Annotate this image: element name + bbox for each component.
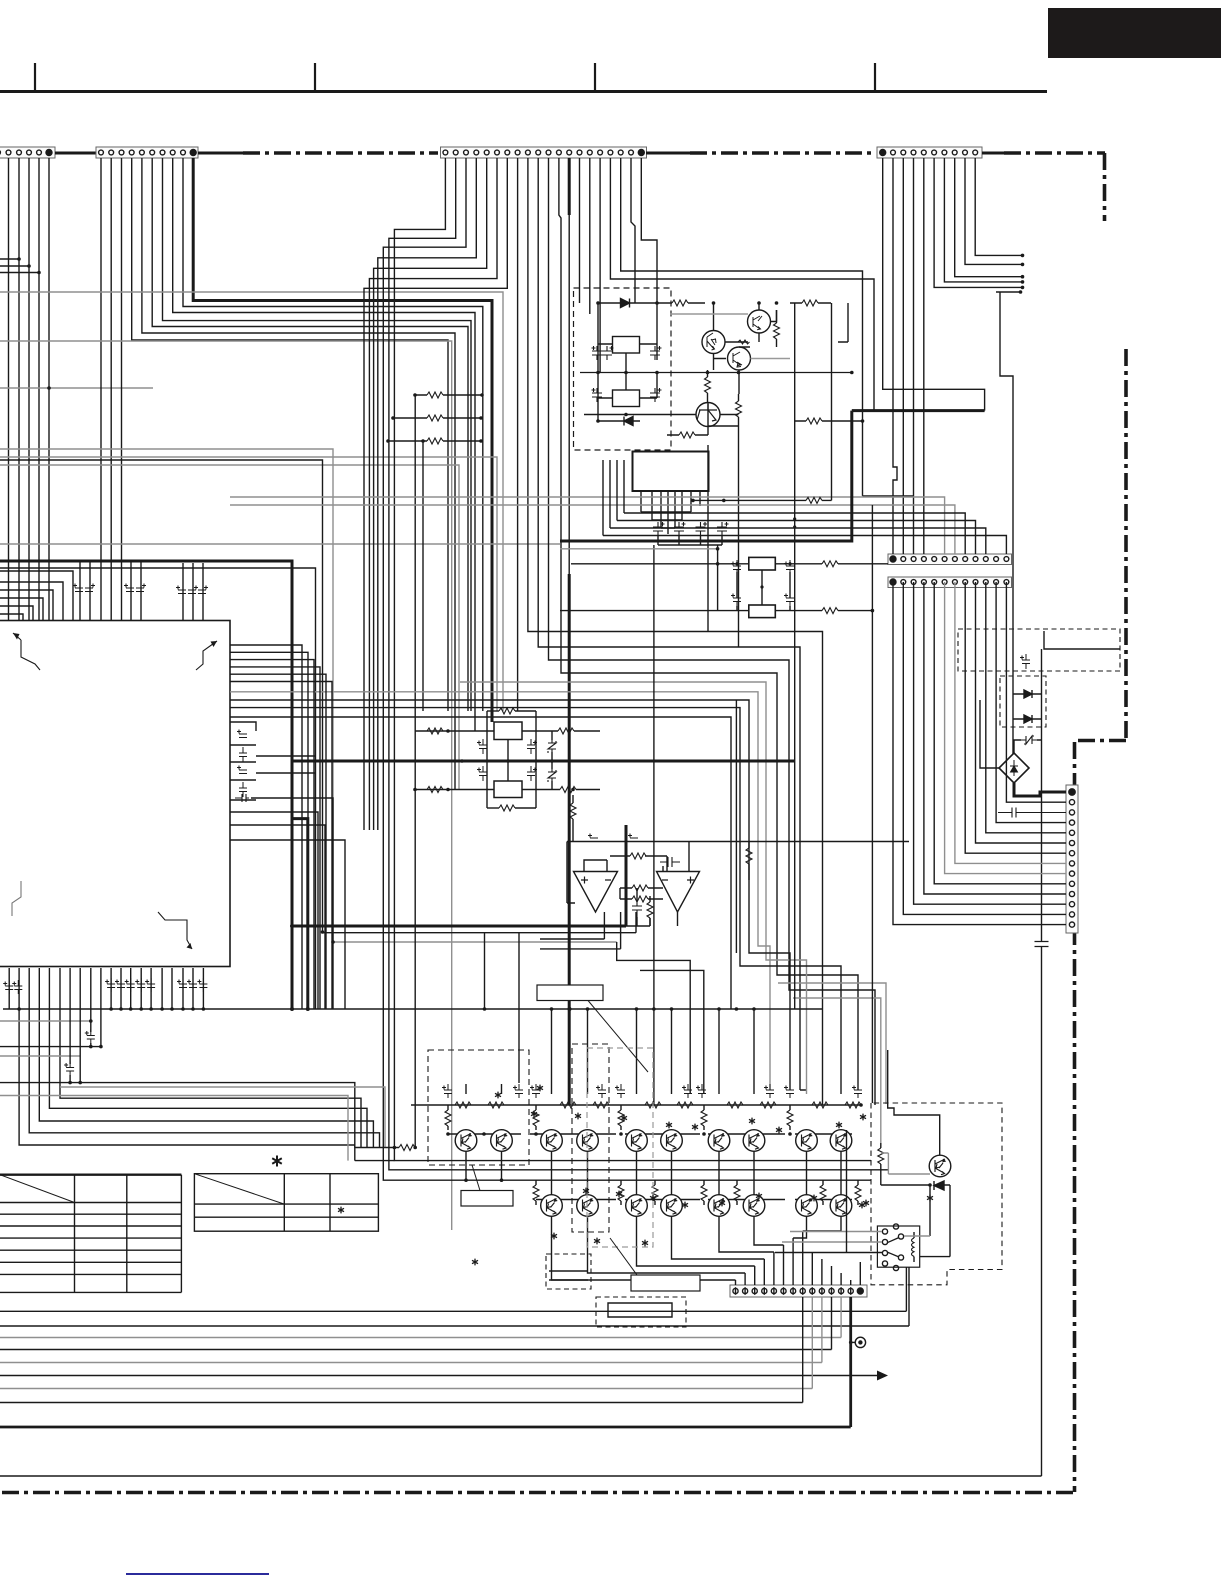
resistor rail y441 (388, 441, 481, 711)
thin bottom rail (0, 1475, 1042, 1477)
thick riser + bottom rail (0, 1297, 851, 1427)
capacitor C-x1 (1020, 654, 1030, 669)
resistor R-m2 (bottom) (487, 807, 499, 809)
wire C pin4 (378, 158, 477, 830)
IC U2 pins (641, 491, 700, 534)
wire C pin6 (369, 158, 497, 830)
resistor R-o2 vertical (748, 842, 750, 849)
wire feedback U3A (567, 842, 607, 904)
filter block F3 (749, 557, 776, 570)
resistor row on rail (455, 1102, 471, 1108)
wire bus y460 (0, 460, 636, 933)
wire C pin2 (389, 158, 889, 1170)
rail y421 right (838, 420, 863, 422)
resistor rail y418 (393, 417, 481, 419)
capacitor C-b (602, 346, 614, 360)
wire C pin18 (621, 158, 914, 496)
wire Q-r top (888, 1050, 940, 1156)
wire bottom pins row (9, 968, 203, 1009)
bus 6 (arrow) (0, 1375, 878, 1377)
capacitor row on pins (3, 980, 13, 994)
tick mark 2 (314, 63, 316, 91)
rail y563.8 (571, 563, 888, 565)
capacitor C-bl1 (90, 1009, 92, 1032)
long rail y1009 (3, 1008, 823, 1010)
capacitor C-r3 (237, 766, 247, 774)
tick mark 1 (34, 63, 36, 91)
diode D-x1 (1013, 693, 1042, 695)
connector CN-G (bottom) (730, 1285, 867, 1297)
capacitor C-i (717, 522, 729, 536)
resistor R-h between Q1 Q3 (738, 340, 750, 344)
CN-G pin drops (736, 1231, 861, 1285)
wire CN-B pins 1-3 (101, 158, 122, 620)
connector CN-E row1 (middle right) (888, 554, 1012, 565)
wire U3B output (677, 912, 679, 926)
wire C pin13 (bold stub) (568, 158, 571, 215)
capacitor C-r2 (239, 747, 247, 762)
wire left rail (598, 303, 657, 421)
blue footer line (126, 1573, 269, 1575)
wire CN-B pin8 (173, 158, 475, 731)
border segment top between connectors (243, 151, 438, 155)
wire CN-B pin7 (163, 158, 472, 711)
resistor R-r1 vertical (880, 1143, 882, 1148)
wire CN-B pin5 (142, 158, 455, 790)
base rail y1105 (411, 1104, 861, 1106)
bold rail y410.6 (852, 409, 985, 412)
capacitor C-o3 (horizontal) (660, 857, 680, 867)
wire IC top stubs with caps (80, 560, 203, 620)
bold wire bridge out (1014, 783, 1066, 796)
wire DB1 inner (1044, 631, 1120, 649)
wire lefts (0, 1020, 91, 1022)
wire D pin9 + NC dot (965, 158, 1022, 264)
tick mark 4 (874, 63, 876, 91)
vertical resistors below rail (445, 1105, 793, 1130)
filter block F2 (494, 781, 522, 798)
label box L3 (631, 1275, 700, 1291)
wire F1-F2 (507, 740, 509, 782)
capacitor C-m3 (477, 766, 487, 781)
wire left-edge L group into IC top (0, 571, 73, 620)
wire CN-B pin4 (132, 158, 448, 711)
connector CN-C (441, 147, 647, 158)
resistor R-m7 vertical (572, 795, 574, 803)
wire x1013 vertical (1012, 679, 1014, 754)
wire feed y682 (grey) (460, 682, 807, 1094)
vertical resistors row2 (533, 1180, 861, 1205)
diode D-r1 (881, 1184, 930, 1186)
rail y731 (415, 730, 552, 732)
column risers to rail (719, 1009, 754, 1094)
wire C pin9 (528, 158, 823, 1105)
extra band lines (60, 1087, 385, 1148)
resistor R-c (vertical) (774, 323, 780, 339)
dashed box DBA3 (tall grey) (587, 1048, 653, 1247)
wire coil link grey (904, 1235, 930, 1237)
capacitor C-o2 (628, 834, 638, 842)
bold rail y761 (292, 760, 795, 763)
wire D pin4 (913, 158, 915, 554)
capacitor group IC-top a (73, 584, 83, 592)
wire link C-border (646, 152, 690, 155)
wire D pin8 + NC dot (955, 158, 1022, 277)
wire C pin20 (641, 158, 657, 303)
wire diode junctions down (930, 1185, 950, 1257)
relay K2 (613, 390, 640, 407)
star marker big (272, 1156, 282, 1167)
row2 base link rail (536, 1199, 852, 1201)
grey feed y983 (778, 983, 886, 1104)
wires into CN-F from staircase (893, 582, 1066, 925)
rail y610.6 (560, 610, 872, 612)
bus 1 (0, 1310, 906, 1312)
bold output rail (292, 925, 626, 928)
IC1 right caps cluster (230, 722, 256, 800)
wire C pin10 (538, 158, 806, 1090)
wire C pin1 (394, 158, 871, 1161)
corner mark TR (196, 641, 217, 670)
wire D pin7 + NC dot (944, 158, 1022, 282)
wire IC2 drop x653.9 (653, 545, 655, 1105)
dashed box DBA1 (left pair) (428, 1050, 529, 1165)
capacitor C-a (592, 346, 603, 360)
feed staircase into columns (617, 942, 691, 1094)
wires Q-network (713, 303, 759, 394)
capacitor C-f (653, 522, 665, 536)
wire C pin19 (631, 158, 635, 303)
wire Q-r emitter grey (881, 1153, 930, 1174)
bus 3 (grey) (0, 1297, 841, 1338)
wire IC1 right pin rows to bundle (230, 645, 320, 1009)
wire relay bottom drops (906, 1267, 909, 1326)
wire C pin15 (589, 158, 591, 314)
resistor R-b (802, 300, 818, 306)
wire CN-B pin9 (183, 158, 483, 711)
wire link A-B (55, 152, 96, 155)
border right mid (1124, 349, 1128, 742)
resistor rail y395 (415, 395, 482, 1148)
grey bus y457 (0, 457, 497, 711)
capacitor C-m2 (527, 739, 537, 754)
wire IC2 pin lines down (658, 535, 722, 545)
wire bus y449 (0, 449, 617, 942)
grey bus y544 (long) (0, 543, 560, 545)
table T1 (0, 1175, 181, 1293)
diode D1 (598, 302, 657, 304)
resistor R-a (672, 300, 688, 306)
wire Q3 right grey (751, 358, 791, 360)
label box L1 (537, 985, 603, 1001)
collector stub to resistor rail (355, 1148, 395, 1161)
resistor R-m4 (558, 728, 574, 734)
dashed box DB2 (1000, 676, 1046, 727)
wire bus y568 (0, 568, 316, 1009)
bridge rectifier BR1 (999, 753, 1029, 783)
wire long vertical x872 (871, 505, 873, 1103)
transistor Q4 (696, 403, 720, 427)
resistor R-o1 (610, 856, 667, 872)
relay K1 (613, 337, 640, 354)
filter block F4 (749, 605, 776, 618)
resistor R-m5 (427, 787, 443, 793)
wire Q4 row (584, 402, 739, 435)
wire C pin12 (559, 158, 858, 1090)
wire right stubs (256, 756, 316, 773)
grey rail y548.8 (560, 548, 718, 550)
diode D2 (598, 420, 640, 422)
resistor R-e (vertical) (736, 401, 742, 417)
resistor R-o5 vertical (647, 902, 653, 918)
wire left-edge stubs (0, 259, 39, 273)
column drops row1-row2 (552, 1152, 842, 1195)
capacitor group IC-top b (124, 584, 134, 592)
wire NC stub x1000 (996, 292, 1020, 679)
bus 2 (0, 1325, 909, 1327)
bold elbow x851.8 (560, 411, 852, 541)
op-amp U3B (657, 872, 700, 913)
resistor R-f (679, 432, 695, 438)
wire net (620, 888, 663, 926)
wire C pin7 (364, 158, 507, 830)
bus 5 (grey) (0, 1297, 822, 1363)
wire op-amp out staircase (540, 912, 621, 949)
bottom rail subckt (580, 372, 852, 374)
wire C pin8 (517, 158, 519, 711)
wire CN-B pin10 (bold route) (193, 158, 492, 722)
wire K1-K2 (598, 344, 657, 398)
wire D pin1 (883, 158, 985, 411)
wire D pin10 + NC dot (975, 158, 1022, 255)
resistor R-g (806, 418, 822, 424)
border right upper (1103, 153, 1107, 221)
bold rail y561 + vertical x292 (0, 561, 292, 1009)
IC U2 body (633, 452, 709, 492)
top rule (0, 90, 1047, 93)
capacitor C-g (674, 522, 686, 536)
wire subckt drop x708 (707, 445, 709, 632)
resistor R-m3 (427, 728, 443, 734)
wire CN-B pin6 (152, 158, 468, 711)
dashed enclosure (574, 288, 672, 450)
resistor R-o4 horizontal (620, 898, 656, 900)
transistor row2 (541, 1195, 563, 1217)
ground rail under IC2 (641, 512, 691, 528)
border bottom (0, 1491, 1073, 1495)
wire vertical x846.5 (846, 1130, 848, 1252)
corner mark BL (12, 881, 21, 916)
capacitor group IC-top c (176, 586, 186, 594)
resistor R-d (vertical) (705, 377, 711, 393)
wire link D-border (982, 152, 1004, 155)
connector CN-A (top left) (0, 147, 55, 158)
corner mark TL (13, 633, 40, 670)
capacitor C-o4 vertical (632, 899, 642, 917)
rail y789.5 (415, 789, 552, 791)
junction dots (596, 301, 853, 423)
wire subckt drop x738.5 (738, 426, 740, 647)
wire U3B input (663, 842, 689, 872)
grey link Q2 row (670, 313, 748, 315)
rail y841.5 over op-amps (567, 841, 909, 843)
wire x831 vertical + rail y500.4 (693, 303, 832, 500)
capacitor C-x3 (horizontal at F pin3) (998, 808, 1066, 818)
wire D pin6 + NC dot (934, 158, 1022, 287)
wire IC2 drop x736.4 (735, 700, 737, 953)
capacitor C-m1 (477, 739, 487, 754)
dashed box DBR (871, 1103, 1002, 1285)
filter block F1 (494, 722, 522, 740)
wire bridge left (980, 700, 1014, 768)
bold branch y818.6 (292, 819, 308, 1009)
leader L3 (610, 1238, 637, 1275)
wire F3-F4 (761, 570, 763, 605)
wire feed y691.8 (230, 692, 770, 1090)
wire D pin3 (902, 158, 904, 554)
border jog (1073, 739, 1126, 743)
grey bus y341 (0, 341, 452, 1230)
vertical 717.6 (717, 545, 719, 611)
network frame (487, 711, 536, 808)
wire Q2 collector up (759, 303, 777, 322)
zener Z-m2 (548, 769, 556, 782)
wire relay feeds from left (790, 1231, 882, 1233)
wire link B-border (198, 152, 243, 155)
capacitor C-m4 (527, 766, 537, 781)
connector CN-D (877, 147, 982, 158)
capacitor C-h (696, 522, 708, 536)
tick mark 3 (594, 63, 596, 91)
transistor Q2 (748, 310, 771, 333)
wire C pin17 (610, 158, 874, 411)
op-amp U-IC1 body (0, 621, 230, 967)
resistor block RB2 (560, 545, 888, 618)
dashed box DBA5 + inner (596, 1297, 686, 1327)
wire C pin14 (579, 158, 581, 303)
wire feed y707.6 (230, 708, 841, 1094)
connector CN-F (right vertical) (1066, 785, 1078, 933)
bus 8 (0, 1297, 803, 1403)
wire feed y717 (230, 717, 731, 1009)
capacitor C-r4 (239, 782, 247, 797)
cap row above grid (442, 1084, 452, 1098)
wire IC right pin row y840 (230, 840, 345, 1009)
connector CN-B (96, 147, 198, 158)
title block (filled) (1048, 8, 1221, 58)
wire D pin2 (893, 158, 897, 554)
corner mark BR (158, 912, 192, 949)
capacitor C-o1 (588, 834, 598, 842)
caps flanking (731, 560, 741, 574)
dashed box DBA4 + inner (546, 1254, 591, 1289)
row1 base link rail (448, 1133, 852, 1135)
resistor R-m6 (560, 787, 576, 793)
connector CN-E row2 (888, 577, 1012, 588)
table T2 (194, 1174, 378, 1232)
border right lower (1073, 742, 1077, 1492)
test point TP1 (855, 1337, 865, 1347)
wire feed y700 (230, 700, 790, 1090)
wire x795 long vertical (794, 303, 796, 1009)
grey feed y998 (793, 998, 881, 1143)
wire x1042 long vertical (1041, 649, 1043, 1476)
dashed box DB1 (958, 629, 1120, 671)
grey bus y465 (0, 465, 459, 790)
emitter drops to staircase (552, 1217, 842, 1281)
wire C pin3 (383, 158, 871, 1180)
wire C pin16 (599, 158, 601, 373)
resistor R-o3 horizontal (620, 887, 656, 889)
dashed box DBA2 (tall) (572, 1044, 609, 1232)
wire IC right pin row y812 (230, 812, 318, 1009)
wire IC right pin row y825 (230, 825, 325, 1009)
junction dots on rail (17, 1007, 738, 1011)
leader L2 (472, 1165, 480, 1191)
resistor R-m1 (top) (487, 710, 499, 712)
diode D-x2 (1013, 718, 1042, 720)
capacitor C-c (592, 388, 603, 402)
wire C pin11 (549, 158, 876, 1105)
transistor Q-r (right single) (929, 1155, 951, 1177)
op-amp U3A (574, 872, 618, 913)
wire x848 stub (838, 303, 848, 342)
bus 4 (0, 1297, 832, 1350)
wire rails into CN-E top (230, 497, 945, 554)
relay RY1 (877, 1224, 919, 1271)
grey bus y292 (0, 292, 503, 711)
leader line L1 (588, 1001, 648, 1073)
label box L2 (461, 1191, 513, 1207)
zener Z-x1 (1021, 736, 1037, 744)
transistor row1 (455, 1130, 477, 1152)
wire IC right pin row y798 (251, 798, 333, 1009)
capacitor C-e (650, 388, 662, 402)
wire fan below rail (19, 1009, 379, 1161)
transistor Q1 (702, 331, 725, 354)
junction dots (413, 729, 575, 791)
zener Z-m1 (548, 740, 556, 753)
wire C pin5 (374, 158, 487, 830)
capacitor C-bl2 (69, 1009, 71, 1064)
capacitor C-d (650, 346, 662, 360)
transistor Q3 (728, 347, 751, 370)
wire D pin5 (923, 158, 925, 554)
bus 7 (grey) (0, 1297, 812, 1389)
capacitor C-x2 (series on x1041) (1035, 942, 1049, 947)
grey stub y388 (0, 387, 153, 389)
wire CN-A pin lines (0, 158, 49, 620)
capacitor C-r1 (237, 730, 247, 738)
